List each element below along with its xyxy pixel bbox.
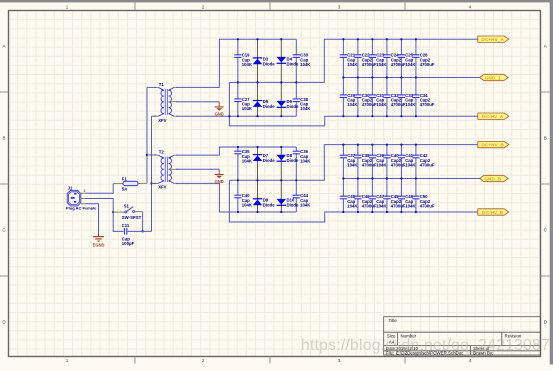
capacitor C44 — [293, 193, 312, 207]
capacitor C19 — [234, 53, 253, 67]
junction switch node — [112, 211, 114, 213]
svg-text:EGND: EGND — [93, 242, 105, 247]
wire T1 secondary bottom / bridge A bottom rail — [176, 115, 296, 117]
junction C11 node — [142, 230, 144, 232]
svg-text:Diode: Diode — [287, 202, 300, 207]
svg-text:Diode: Diode — [287, 104, 300, 109]
capacitor C24 — [383, 53, 406, 67]
svg-text:104K: 104K — [405, 204, 416, 209]
svg-text:GND_1: GND_1 — [485, 75, 501, 81]
wire bank A column 1 — [342, 39, 344, 116]
capacitor C40 — [383, 153, 406, 167]
svg-text:4700uF: 4700uF — [391, 204, 406, 209]
svg-text:Diode: Diode — [287, 61, 300, 66]
svg-text:104K: 104K — [300, 203, 311, 208]
wire bank A column 5 — [400, 39, 402, 116]
svg-text:DC-HV_B: DC-HV_B — [482, 210, 504, 216]
wire fuse node to T2 primary — [147, 154, 156, 156]
power ground GND A — [215, 102, 224, 117]
capacitor C27 — [234, 97, 253, 111]
capacitor C35 — [234, 149, 253, 163]
wire fuse to T1 primary — [147, 86, 156, 88]
svg-text:104K: 104K — [347, 102, 358, 107]
wire bridge A column 3 — [280, 39, 282, 116]
wire bank A column 3 — [371, 39, 373, 116]
svg-text:104K: 104K — [242, 159, 253, 164]
svg-text:2: 2 — [84, 189, 86, 193]
wire bridge A mid rail to bank A top — [229, 39, 477, 82]
capacitor C40 — [234, 193, 253, 207]
capacitor C45 — [340, 194, 359, 208]
svg-text:104K: 104K — [242, 62, 253, 67]
capacitor C23 — [369, 53, 388, 67]
svg-text:XFV: XFV — [158, 185, 166, 190]
capacitor C30 — [354, 93, 377, 107]
port GND_B — [480, 175, 509, 182]
wire bridge B column 4 — [295, 147, 297, 212]
diode D8 — [277, 153, 299, 163]
diode D4 — [277, 57, 299, 67]
junctions bridge A — [228, 38, 297, 117]
wire primaries return — [151, 116, 153, 231]
svg-text:100pF: 100pF — [122, 241, 135, 246]
capacitor C38 — [293, 97, 312, 111]
svg-text:104K: 104K — [376, 102, 387, 107]
svg-text:SW-SPST: SW-SPST — [122, 215, 142, 220]
diode D10 — [277, 197, 299, 207]
wire bridge A column 2 — [257, 39, 259, 116]
svg-text:4700uF: 4700uF — [362, 62, 377, 67]
svg-text:DC+HV_B: DC+HV_B — [481, 142, 504, 148]
capacitor C11 — [122, 223, 135, 246]
svg-text:104K: 104K — [405, 102, 416, 107]
svg-text:4700uF: 4700uF — [391, 163, 406, 168]
wire fuse output to transformer primaries — [146, 87, 148, 183]
wire T1 secondary top to bridge A — [176, 39, 296, 87]
earth ground EGND — [93, 232, 105, 247]
wire T1 primary bottom — [152, 115, 157, 117]
wire C11 row — [113, 212, 151, 231]
svg-text:A: A — [544, 44, 547, 49]
diode D7 — [253, 153, 275, 163]
capacitor C26 — [412, 53, 435, 67]
capacitor C49 — [398, 194, 417, 208]
capacitor C48 — [383, 194, 406, 208]
svg-text:Title: Title — [389, 318, 398, 323]
svg-text:C11: C11 — [122, 223, 130, 228]
wire J1 pin1 to switch — [86, 199, 114, 213]
svg-text:104K: 104K — [347, 62, 358, 67]
junction T2 primary bottom — [150, 182, 152, 184]
svg-text:104K: 104K — [242, 203, 253, 208]
wire bank A mid rail — [343, 77, 479, 79]
transformer T2 — [154, 150, 179, 190]
capacitor C30 — [293, 53, 312, 67]
svg-text:B: B — [544, 136, 547, 141]
capacitor C47 — [369, 194, 388, 208]
svg-text:T2: T2 — [159, 150, 165, 155]
junctions bridge B — [237, 146, 298, 213]
capacitor C29 — [340, 93, 359, 107]
wire bridge A return — [229, 82, 477, 126]
diode D9 — [253, 197, 275, 207]
wire bridge A column 1 — [237, 39, 239, 116]
svg-text:Diode: Diode — [263, 104, 276, 109]
capacitor C46 — [354, 194, 377, 208]
capacitor C22 — [354, 53, 377, 67]
svg-text:DC+HV_A: DC+HV_A — [481, 37, 504, 43]
capacitor C32 — [383, 93, 406, 107]
wire J1 pin2 to fuse — [86, 183, 114, 193]
wire bridge B mid rail to bank B top — [229, 145, 477, 181]
title block — [384, 317, 541, 355]
wire J1 earth pin — [86, 204, 99, 232]
svg-text:S1: S1 — [124, 204, 130, 209]
wire bank B column 2 — [357, 145, 359, 212]
capacitor C37 — [340, 153, 359, 167]
svg-text:104K: 104K — [405, 163, 416, 168]
wire T1 center tap to ground — [176, 101, 219, 103]
svg-text:104K: 104K — [300, 159, 311, 164]
power ground GND B — [215, 169, 224, 184]
junction fuse-T2 primary top — [146, 154, 148, 156]
capacitor C36 — [293, 149, 312, 163]
wire bank B column 1 — [342, 145, 344, 212]
svg-text:4700uF: 4700uF — [420, 204, 435, 209]
svg-text:104K: 104K — [405, 62, 416, 67]
svg-text:J1: J1 — [68, 185, 73, 190]
wire bridge B column 3 — [280, 147, 282, 212]
wire bank A column 2 — [357, 39, 359, 116]
diode D6 — [277, 99, 299, 109]
wire bridge A column 4 — [295, 39, 297, 116]
svg-text:Plug AC Female: Plug AC Female — [66, 206, 97, 211]
svg-text:4700uF: 4700uF — [362, 204, 377, 209]
diode D5 — [253, 99, 275, 109]
capacitor C42 — [412, 153, 435, 167]
svg-text:104K: 104K — [376, 163, 387, 168]
switch S1 — [113, 204, 142, 220]
wire T2 center tap to ground — [176, 168, 219, 170]
svg-text:4700uF: 4700uF — [420, 163, 435, 168]
wire T2 secondary top to bridge B — [176, 147, 296, 155]
junctions bank B — [342, 144, 417, 214]
transformer T1 — [154, 82, 179, 123]
capacitor C39 — [369, 153, 388, 167]
svg-text:F1: F1 — [122, 176, 128, 181]
svg-text:104K: 104K — [242, 106, 253, 111]
capacitor C41 — [398, 153, 417, 167]
svg-text:DC-HV_A: DC-HV_A — [482, 114, 504, 120]
wire bank B column 5 — [400, 145, 402, 212]
svg-text:Diode: Diode — [263, 202, 276, 207]
svg-text:104K: 104K — [376, 62, 387, 67]
port DC+HV_B — [478, 141, 509, 148]
wire T2 primary bottom — [152, 182, 157, 184]
svg-text:104K: 104K — [347, 163, 358, 168]
capacitor C38 — [354, 153, 377, 167]
svg-text:B: B — [2, 136, 5, 141]
svg-text:Diode: Diode — [287, 158, 300, 163]
svg-text:104K: 104K — [376, 204, 387, 209]
capacitor C31 — [369, 93, 388, 107]
svg-text:GND: GND — [215, 111, 224, 116]
pin stubs J1 — [81, 189, 86, 204]
wire bank B column 4 — [386, 145, 388, 212]
svg-text:4700uF: 4700uF — [362, 102, 377, 107]
svg-text:4700uF: 4700uF — [362, 163, 377, 168]
wire bridge B column 1 — [237, 147, 239, 212]
wire bank A column 4 — [386, 39, 388, 116]
svg-text:Diode: Diode — [263, 61, 276, 66]
port DC-HV_B — [478, 209, 509, 216]
wire bridge B return — [229, 180, 477, 222]
wire bank A column 6 — [415, 39, 417, 116]
svg-text:104K: 104K — [347, 204, 358, 209]
svg-text:GND_B: GND_B — [484, 176, 501, 182]
svg-text:4700uF: 4700uF — [420, 62, 435, 67]
capacitor C21 — [340, 53, 359, 67]
svg-text:XFV: XFV — [158, 118, 166, 123]
svg-text:104K: 104K — [300, 106, 311, 111]
wire bank B column 6 — [415, 145, 417, 212]
port DC-HV_A — [478, 113, 509, 120]
svg-text:T1: T1 — [159, 82, 165, 87]
wire switch to C11 node — [142, 212, 144, 232]
svg-text:4700uF: 4700uF — [391, 102, 406, 107]
svg-text:104K: 104K — [300, 62, 311, 67]
fuse F1 — [113, 176, 147, 191]
svg-text:4700uF: 4700uF — [420, 102, 435, 107]
capacitor C50 — [412, 194, 435, 208]
capacitor C25 — [398, 53, 417, 67]
capacitor C33 — [398, 93, 417, 107]
wire bank B column 3 — [371, 145, 373, 212]
svg-text:4700uF: 4700uF — [391, 62, 406, 67]
connector J1 AC plug — [66, 185, 97, 210]
wire T2 secondary bottom / bridge B bottom rail — [176, 183, 296, 212]
diode D3 — [253, 57, 275, 67]
port DC+HV_A — [478, 36, 509, 43]
junctions bank A — [342, 38, 417, 117]
wire bridge B column 2 — [257, 147, 259, 212]
svg-text:Diode: Diode — [263, 158, 276, 163]
capacitor C34 — [412, 93, 435, 107]
svg-text:A: A — [2, 44, 5, 49]
port GND_1 — [480, 74, 509, 81]
wire bank B mid rail — [343, 178, 479, 180]
svg-text:5A: 5A — [122, 187, 128, 192]
